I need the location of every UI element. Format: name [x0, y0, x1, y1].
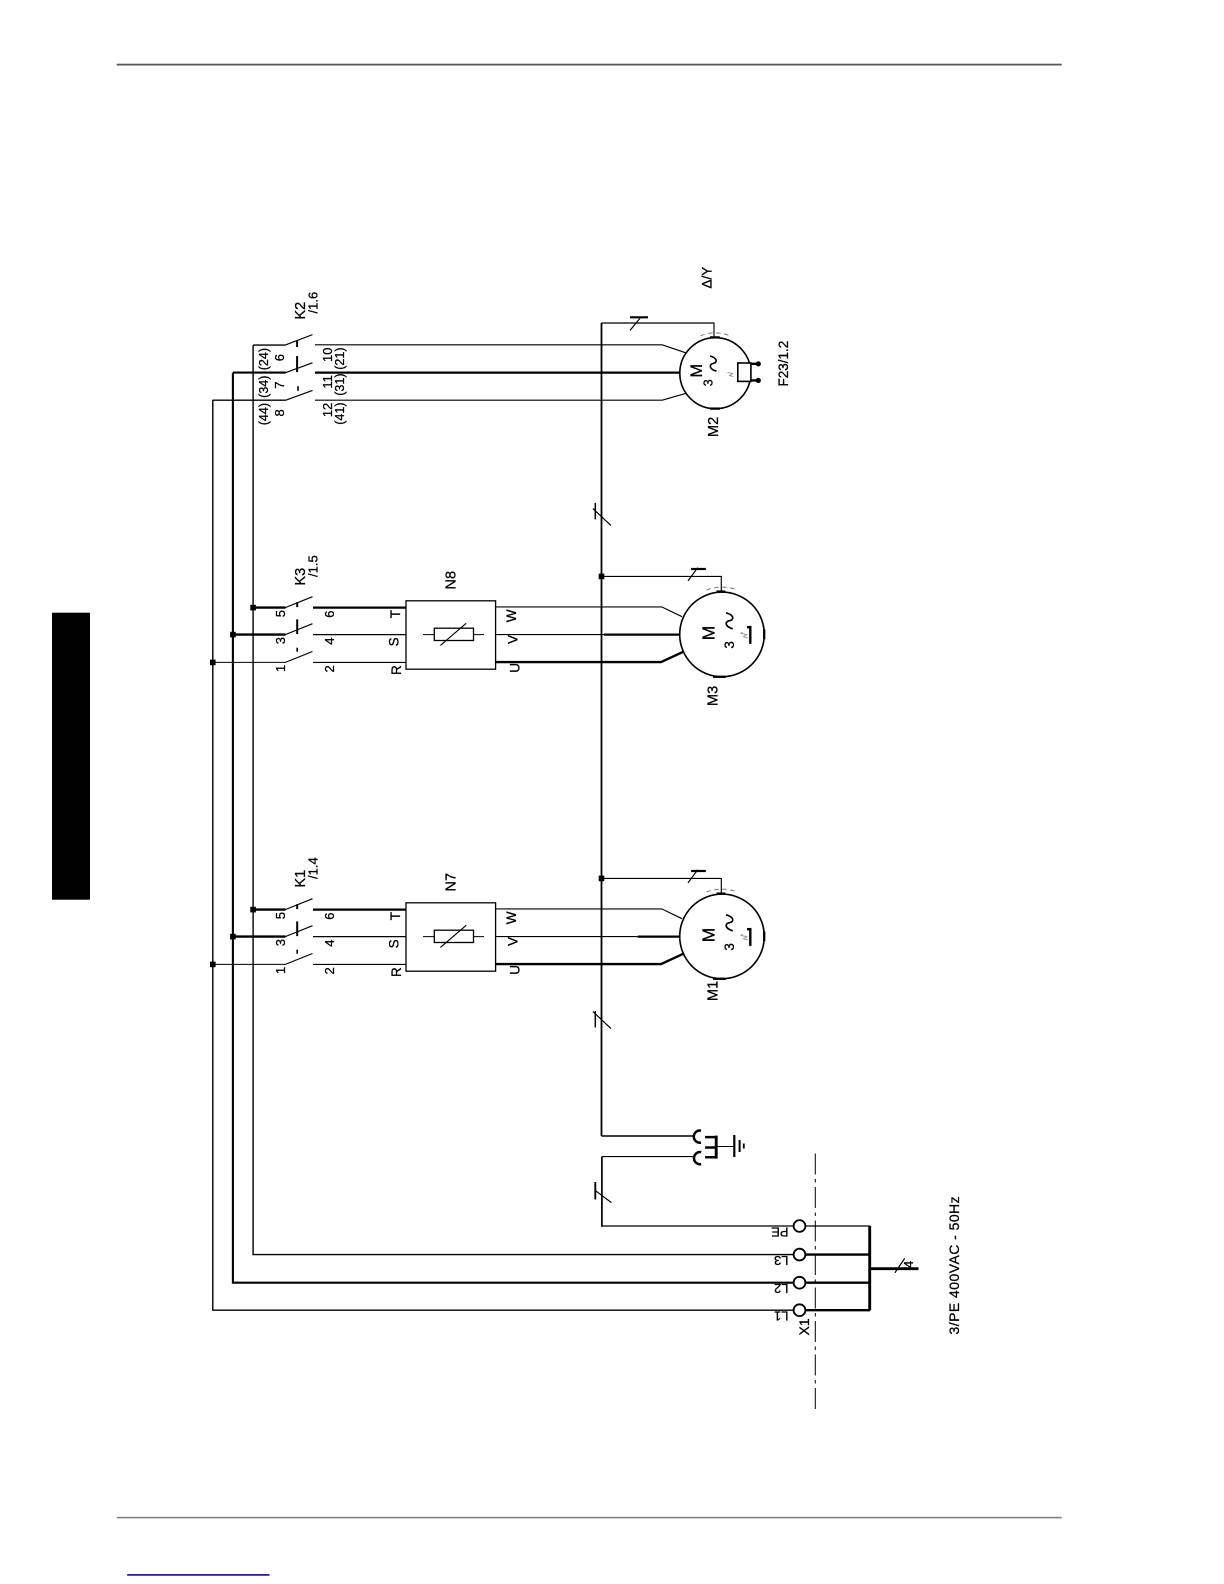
- M3 thermal contact symbol: [741, 626, 750, 644]
- M2 PE entry dash: [710, 336, 720, 338]
- svg-text:R: R: [389, 967, 404, 977]
- svg-text:5: 5: [273, 912, 288, 919]
- svg-text:W: W: [504, 609, 519, 622]
- contactor K2 pole 8-12: [213, 386, 686, 400]
- svg-text:4: 4: [901, 1261, 916, 1268]
- contactor K2 pole 6-10: [253, 335, 686, 353]
- ground wire: [716, 1146, 734, 1148]
- M2 inner tilde: [710, 356, 717, 371]
- svg-text:3: 3: [722, 943, 737, 951]
- svg-text:(31): (31): [333, 374, 347, 396]
- M2 theta gray: [728, 373, 734, 377]
- wire PE to M2: [602, 323, 715, 338]
- svg-text:4: 4: [322, 940, 337, 947]
- svg-text:U: U: [508, 663, 523, 673]
- svg-text:1: 1: [273, 967, 288, 974]
- wire PE drop to socket: [602, 1135, 694, 1137]
- svg-text:6: 6: [322, 611, 337, 618]
- svg-text:X1: X1: [796, 1318, 812, 1335]
- bus L3: [253, 345, 794, 1255]
- svg-text:1: 1: [273, 665, 288, 672]
- svg-text:L1: L1: [774, 1309, 788, 1324]
- wire N7-U to M1: [496, 954, 684, 964]
- wire PE to M3: [602, 576, 722, 592]
- wire PE return from terminal: [602, 1225, 794, 1227]
- M3 bottom edge dash: [763, 630, 765, 640]
- svg-text:/1.4: /1.4: [306, 857, 321, 879]
- svg-text:T: T: [388, 610, 403, 618]
- svg-text:Δ/Y: Δ/Y: [700, 267, 715, 289]
- svg-text:6: 6: [322, 913, 337, 920]
- thermistor dots: [756, 378, 761, 383]
- svg-text:2: 2: [322, 665, 337, 672]
- wire N7-V to M1: [496, 936, 638, 938]
- svg-text:4: 4: [322, 638, 337, 645]
- M1 thermal contact symbol: [741, 928, 750, 946]
- socket arc 1 (PE bus): [694, 1131, 701, 1143]
- cable line: [870, 1267, 919, 1270]
- PE mark on bus right: [593, 503, 611, 526]
- PE mark on M1 PE wire: [688, 870, 706, 883]
- svg-text:M2: M2: [706, 417, 722, 437]
- rotated schematic (landscape coords 1584x1224): [210, 267, 962, 1409]
- svg-text:3: 3: [273, 939, 288, 946]
- svg-text:(24): (24): [257, 348, 271, 370]
- svg-text:U: U: [508, 965, 523, 975]
- cable bracket: [868, 1226, 871, 1310]
- junction L1-K1: [210, 962, 216, 968]
- bus L2: [233, 373, 794, 1283]
- junction L2-K1: [230, 934, 236, 940]
- svg-text:M1: M1: [706, 981, 722, 1001]
- thermistor box F23: [738, 363, 751, 381]
- svg-text:6: 6: [272, 354, 287, 361]
- svg-text:(34): (34): [257, 376, 271, 398]
- svg-text:/1.5: /1.5: [306, 555, 321, 577]
- svg-text:S: S: [387, 637, 402, 646]
- soft starter N8 box: [406, 601, 496, 669]
- svg-text:W: W: [504, 911, 519, 924]
- contactor K3 pole 5-6: [253, 597, 406, 608]
- footer blue link line: [127, 1574, 269, 1576]
- junction L2-K3: [230, 632, 236, 638]
- N8 resistor symbol: [423, 623, 484, 645]
- svg-text:R: R: [389, 665, 404, 675]
- thermistor leads: [751, 364, 756, 381]
- svg-text:M: M: [699, 626, 719, 641]
- svg-text:M3: M3: [706, 686, 722, 706]
- svg-text:(41): (41): [333, 403, 347, 425]
- contactor K1 pole 3-4: [233, 921, 406, 936]
- svg-text:F23/1.2: F23/1.2: [776, 341, 791, 387]
- PE mark on M2 PE wire: [630, 317, 648, 330]
- bus PE: [601, 323, 603, 1136]
- wire N8-W to M3: [496, 607, 682, 617]
- svg-text:M: M: [688, 364, 706, 378]
- terminal stub L2: [805, 1281, 870, 1283]
- M3 inner tilde: [726, 613, 733, 629]
- M3 PE dashed arc: [707, 587, 738, 590]
- M3 left edge dash: [713, 676, 726, 678]
- svg-text:3: 3: [722, 641, 737, 649]
- junction L1-K3: [210, 660, 216, 666]
- svg-text:M: M: [699, 928, 719, 943]
- wire PE to M1: [602, 878, 722, 894]
- motor M3 circle: [680, 592, 765, 677]
- svg-text:V: V: [506, 635, 521, 644]
- cable slash: [895, 1258, 905, 1272]
- N7 resistor symbol: [423, 925, 484, 947]
- svg-text:L2: L2: [774, 1281, 788, 1296]
- terminal stub L3: [805, 1253, 870, 1255]
- junction PE-M3: [599, 574, 605, 580]
- X1 terminal circle L1: [794, 1304, 806, 1316]
- terminal stub PE: [805, 1225, 870, 1227]
- connector comb: [715, 1136, 718, 1159]
- motor M1 circle: [680, 894, 765, 979]
- junction L3-K3: [250, 605, 256, 611]
- M2 PE dashed arc: [701, 333, 731, 336]
- svg-text:L3: L3: [774, 1253, 788, 1268]
- footer rule: [117, 1517, 1062, 1519]
- M1 bottom edge dash: [763, 932, 765, 942]
- M1 PE entry dash: [717, 892, 726, 894]
- wire N8-U to M3: [496, 652, 684, 662]
- PE mark on M3 PE wire: [688, 568, 706, 581]
- bus L1: [213, 400, 794, 1310]
- motor M2 circle: [680, 338, 751, 409]
- svg-text:(44): (44): [257, 403, 271, 425]
- svg-text:N8: N8: [444, 571, 460, 590]
- contactor K3 pole 1-2: [213, 648, 406, 663]
- svg-text:2: 2: [322, 967, 337, 974]
- contactor K2 pole 7-11: [233, 356, 680, 373]
- soft starter N7 box: [406, 903, 496, 971]
- PE mark on PE return: [595, 1182, 611, 1203]
- wire N7-W to M1: [496, 909, 682, 919]
- M1 inner tilde: [726, 915, 733, 931]
- X1 terminal circle L2: [794, 1277, 806, 1289]
- svg-text:3: 3: [273, 637, 288, 644]
- svg-text:S: S: [387, 939, 402, 948]
- contactor K3 pole 3-4: [233, 619, 406, 634]
- X1 terminal circle L3: [794, 1249, 806, 1261]
- M1 left edge dash: [713, 978, 726, 980]
- svg-text:T: T: [388, 912, 403, 920]
- svg-text:3/PE 400VAC - 50Hz: 3/PE 400VAC - 50Hz: [946, 1196, 962, 1335]
- svg-text:/1.6: /1.6: [306, 292, 321, 314]
- svg-text:PE: PE: [771, 1225, 789, 1240]
- contactor K1 pole 1-2: [213, 950, 406, 965]
- svg-text:N7: N7: [444, 873, 460, 892]
- wire N8-V to M3: [496, 634, 604, 636]
- socket arc 2 (PE return): [694, 1152, 701, 1164]
- svg-text:5: 5: [273, 610, 288, 617]
- M2 left edge dash: [710, 407, 720, 409]
- header rule: [117, 64, 1062, 66]
- svg-text:3: 3: [702, 379, 716, 386]
- terminal stub L1: [805, 1309, 870, 1311]
- svg-text:8: 8: [272, 409, 287, 416]
- svg-text:7: 7: [272, 382, 287, 389]
- contactor K1 pole 5-6: [253, 899, 406, 910]
- PE mark on bus left: [593, 1011, 611, 1029]
- svg-text:V: V: [506, 937, 521, 946]
- junction PE-M1: [599, 876, 605, 882]
- junction L3-K1: [250, 907, 256, 913]
- svg-text:(21): (21): [333, 348, 347, 370]
- M1 PE dashed arc: [707, 889, 738, 892]
- side tab black rectangle: [52, 613, 90, 900]
- dash-dot boundary: [814, 1151, 816, 1409]
- M3 PE entry dash: [717, 590, 726, 592]
- X1 terminal circle PE: [794, 1220, 806, 1232]
- earth symbol: [733, 1135, 735, 1157]
